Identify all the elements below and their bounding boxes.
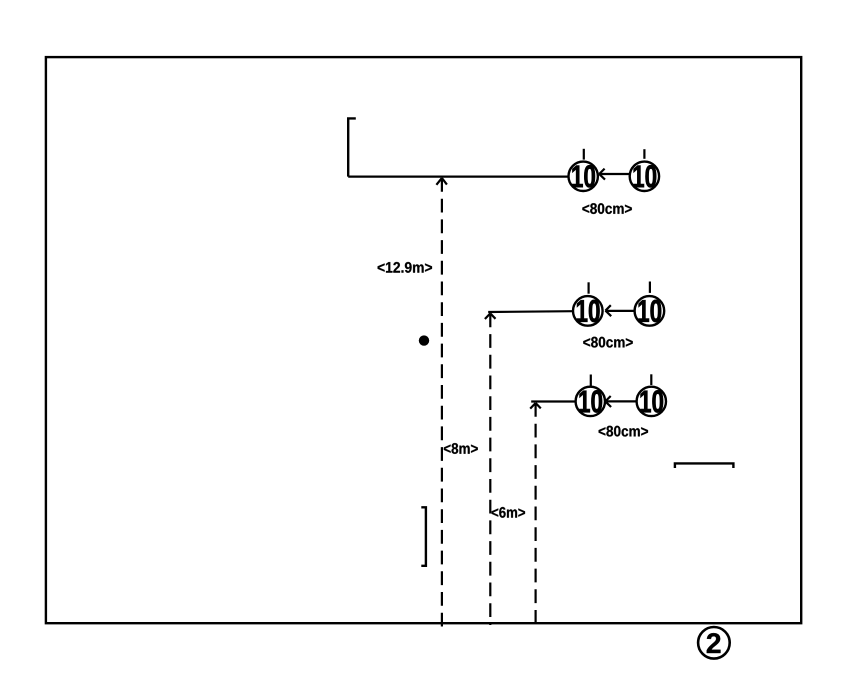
dashed distance line 12.9m arrowhead: [436, 178, 447, 185]
dashed distance line 8m arrowhead: [485, 313, 496, 319]
row 1 gap label 80cm: [582, 203, 631, 214]
row 3 line: [531, 400, 576, 402]
dashed distance line 6m: [534, 403, 536, 625]
reference dot: [419, 335, 429, 345]
row 2 right disc 10: [635, 296, 665, 326]
row 2 right disc tick: [649, 282, 651, 293]
row 1 left disc tick: [583, 149, 585, 160]
row 2 left disc 10: [573, 296, 603, 326]
dashed distance line 12.9m: [441, 178, 443, 627]
row 1 left disc 10: [569, 162, 598, 191]
label 8m: [444, 443, 478, 454]
row 1 right disc 10: [630, 162, 659, 191]
dashed distance line 6m arrowhead: [530, 403, 541, 409]
row 3 left disc tick: [590, 375, 592, 387]
row 1 right disc tick: [643, 149, 645, 159]
row 1 start bracket: [348, 118, 356, 176]
row 3 right disc tick: [650, 374, 652, 385]
row 2 left disc tick: [587, 282, 589, 293]
label 6m: [492, 507, 525, 518]
row 1 gap arrow: [599, 169, 629, 180]
left goal bracket: [421, 507, 426, 566]
row 2 gap arrow: [605, 305, 634, 316]
label 12.9m: [378, 262, 432, 273]
row 3 gap arrow: [605, 396, 636, 407]
figure number badge 2: [698, 627, 730, 659]
row 2 gap label 80cm: [583, 337, 632, 348]
right goal bracket: [675, 463, 734, 468]
row 3 gap label 80cm: [599, 426, 648, 437]
row 3 left disc 10: [576, 387, 605, 416]
row 3 right disc 10: [637, 387, 666, 416]
field border: [46, 57, 801, 623]
dashed distance line 8m: [489, 313, 491, 625]
row 1 line: [348, 176, 568, 178]
row 2 line: [488, 310, 573, 313]
